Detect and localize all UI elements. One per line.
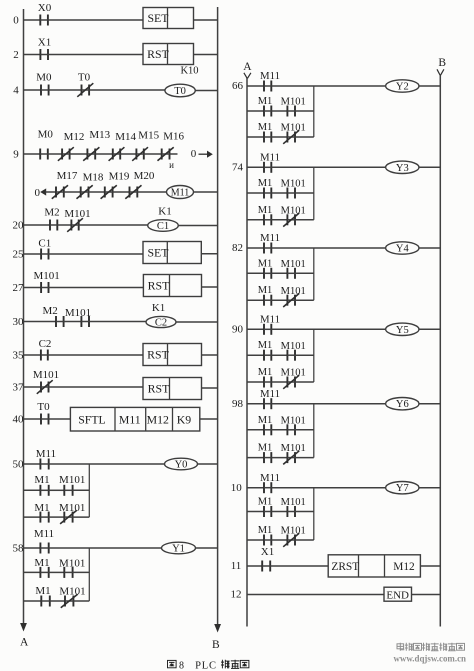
wire rung50 left <box>24 463 41 465</box>
contact M1 (rung58 b2) <box>35 585 50 607</box>
contact M101 (NC, rung90 b2) <box>281 368 306 389</box>
branch join vertical (rung74) <box>313 167 315 220</box>
svg-text:M0: M0 <box>36 71 52 83</box>
svg-text:M101: M101 <box>281 526 306 537</box>
svg-text:M1: M1 <box>258 340 273 351</box>
wire rung2 right <box>194 54 218 56</box>
svg-text:66: 66 <box>232 80 244 92</box>
svg-text:T0: T0 <box>37 401 50 413</box>
svg-text:M1: M1 <box>258 443 273 454</box>
instruction box SFTL M11 M12 K9 <box>70 407 199 431</box>
wire rung82 b2 join <box>295 299 314 301</box>
svg-text:37: 37 <box>13 382 25 394</box>
wire rung90 b2 left <box>247 381 264 383</box>
svg-text:M1: M1 <box>258 178 273 189</box>
wire rung74 b2 join <box>295 219 314 221</box>
wire rung58 to coil <box>49 547 162 549</box>
output coil Y1 <box>162 542 196 554</box>
wire rung82 b2 left <box>247 299 264 301</box>
svg-text:SFTL: SFTL <box>78 412 106 426</box>
wire rung90 right <box>418 328 440 330</box>
svg-text:82: 82 <box>232 242 243 254</box>
watermark character 术 <box>448 643 456 651</box>
svg-text:M1: M1 <box>258 122 273 133</box>
watermark character 技 <box>439 643 447 651</box>
wire rung66 b1 left <box>247 110 264 112</box>
svg-text:35: 35 <box>13 350 25 362</box>
wire <box>50 600 65 602</box>
wire <box>271 299 287 301</box>
contact M12 (NC) <box>58 131 84 161</box>
wire rung0 left <box>24 19 41 21</box>
wire rung37 left <box>24 386 42 388</box>
wire <box>144 153 162 155</box>
svg-text:M101: M101 <box>281 205 306 216</box>
contact C1 (NO) <box>38 238 51 260</box>
wire rung20 left <box>24 224 51 226</box>
svg-text:C1: C1 <box>157 221 169 232</box>
svg-text:M18: M18 <box>83 172 104 184</box>
contact T0 (NC) <box>77 71 93 96</box>
contact M11 (rung66) <box>260 70 280 91</box>
svg-text:и: и <box>169 160 174 170</box>
wire rung98 left <box>247 403 264 405</box>
svg-text:20: 20 <box>13 220 25 232</box>
wire rung25 left <box>24 253 42 255</box>
wire rung40 left <box>24 418 42 420</box>
contact M15 (NC) <box>132 130 159 161</box>
wire rung74 b1 left <box>247 192 264 194</box>
svg-text:0: 0 <box>13 15 19 27</box>
svg-text:M1: M1 <box>258 258 273 269</box>
instruction box RST (rung 27) <box>143 275 201 297</box>
svg-text:M12: M12 <box>393 561 415 573</box>
wire rung10 right <box>418 487 440 489</box>
wire rung50 b2 join <box>73 516 90 518</box>
svg-text:0: 0 <box>34 187 40 199</box>
svg-text:RST: RST <box>148 382 170 396</box>
contact M11 (rung90) <box>260 314 280 335</box>
wire rung66 b1 join <box>295 110 314 112</box>
contact M101 (NC, rung74 b2) <box>281 205 306 226</box>
svg-text:www.dqjsw.com.cn: www.dqjsw.com.cn <box>394 655 467 665</box>
svg-text:M101: M101 <box>281 341 306 352</box>
wire <box>271 192 287 194</box>
contact M11 (rung50) <box>36 448 56 470</box>
svg-text:M1: M1 <box>34 502 49 514</box>
watermark character 气 <box>405 643 413 651</box>
contact M101 (rung74 b1) <box>281 179 306 199</box>
wire rung10 b1 join <box>295 511 314 513</box>
wire rung58 right <box>196 547 218 549</box>
svg-text:M101: M101 <box>281 259 306 270</box>
svg-text:M12: M12 <box>147 412 169 426</box>
contact M11 (rung98) <box>260 388 280 409</box>
svg-text:M101: M101 <box>281 368 306 379</box>
wire <box>120 153 136 155</box>
output coil Y0 <box>165 458 198 470</box>
svg-text:RST: RST <box>147 348 169 362</box>
wire rung0 right <box>194 19 218 21</box>
branch join vertical (rung66) <box>313 86 315 137</box>
svg-text:A: A <box>20 637 29 649</box>
contact M14 (NC) <box>109 131 137 161</box>
contact X1 (rung114) <box>261 546 274 572</box>
svg-text:M101: M101 <box>281 123 306 134</box>
output coil Y7 <box>386 482 419 495</box>
wire rung40 right <box>200 418 218 420</box>
svg-text:B: B <box>212 639 220 651</box>
svg-text:C1: C1 <box>38 238 51 250</box>
svg-text:END: END <box>386 589 409 601</box>
contact M11 (rung58) <box>34 528 54 554</box>
wire <box>49 489 65 491</box>
svg-text:K10: K10 <box>180 66 198 77</box>
wire rung20 to counter <box>79 224 148 226</box>
wire rung50 right <box>198 463 218 465</box>
wire rung35 right <box>202 354 218 356</box>
svg-text:M101: M101 <box>281 415 306 426</box>
contact M17 (NC) <box>52 170 78 199</box>
contact M101 (NC, rung37) <box>33 369 59 394</box>
contact X0 (NO) <box>38 2 52 26</box>
wire rung90 b1 join <box>295 354 314 356</box>
wire <box>271 136 287 138</box>
branch join vertical (rung10) <box>313 488 315 540</box>
contact M1 (rung82 b2) <box>258 285 273 306</box>
contact M16 (NC) <box>158 131 185 161</box>
svg-text:M101: M101 <box>59 474 85 486</box>
wire rung2 to RST box <box>48 54 143 56</box>
wire rung2 left <box>24 54 41 56</box>
wire rung82 left <box>247 247 264 249</box>
svg-text:25: 25 <box>13 249 25 261</box>
wire rung58 b2 join <box>73 600 89 602</box>
wire <box>271 354 287 356</box>
output coil Y5 <box>386 323 419 336</box>
svg-text:K1: K1 <box>152 302 165 314</box>
svg-text:B: B <box>438 57 446 69</box>
contact M1 (rung10 b2) <box>258 525 273 546</box>
svg-text:M101: M101 <box>65 307 91 319</box>
continuation arrow left (rung 9 row 2) <box>40 188 56 195</box>
timer coil T0 <box>165 84 195 97</box>
wire rung40 to SFTL box <box>49 418 71 420</box>
svg-text:X0: X0 <box>38 2 52 14</box>
branch join vertical (rung58) <box>88 548 90 601</box>
contact C2 (NO) <box>39 338 52 361</box>
svg-text:M17: M17 <box>57 170 78 182</box>
contact M101 (NC, rung82 b2) <box>281 286 306 307</box>
wire rung74 left <box>247 166 264 168</box>
continuation arrowhead B <box>437 69 444 75</box>
instruction box ZRST M12 <box>328 555 420 577</box>
wire rung30 to counter <box>89 321 146 323</box>
svg-text:Y6: Y6 <box>396 399 409 410</box>
contact M1 (rung74 b1) <box>258 178 273 199</box>
contact M18 (NC) <box>77 172 104 199</box>
right power rail (left ladder) <box>214 7 221 633</box>
wire <box>64 191 81 193</box>
svg-text:M2: M2 <box>42 305 57 317</box>
wire rung98 b1 left <box>247 429 264 431</box>
svg-text:M101: M101 <box>281 497 306 508</box>
wire rung82 b1 join <box>295 272 314 274</box>
wire rung50 branch2 left <box>24 516 41 518</box>
wire <box>89 191 105 193</box>
watermark character 化 <box>431 643 439 651</box>
wire <box>271 219 287 221</box>
svg-text:M101: M101 <box>64 208 90 220</box>
wire <box>271 457 287 459</box>
contact M1 (rung82 b1) <box>258 258 273 279</box>
svg-text:M1: M1 <box>258 497 273 508</box>
wire row2 to coil <box>137 191 166 193</box>
contact M1 (rung58 b1) <box>34 557 49 578</box>
svg-text:Y7: Y7 <box>396 483 409 494</box>
watermark character 电 <box>397 643 404 651</box>
branch join vertical (rung50) <box>88 464 90 517</box>
branch join vertical (rung98) <box>313 404 315 458</box>
wire rung58 left <box>24 547 41 549</box>
svg-text:M1: M1 <box>34 557 49 569</box>
svg-text:M1: M1 <box>258 415 273 426</box>
wire rung10 b2 left <box>247 539 264 541</box>
wire rung0 to SET box <box>48 19 143 21</box>
svg-text:Y0: Y0 <box>175 460 188 471</box>
svg-text:M101: M101 <box>59 502 85 514</box>
caption character 形 <box>231 660 240 669</box>
svg-text:M16: M16 <box>163 131 184 143</box>
svg-text:90: 90 <box>232 324 244 336</box>
contact M101 (rung82 b1) <box>281 259 306 279</box>
svg-text:M15: M15 <box>138 130 159 142</box>
svg-text:M2: M2 <box>44 207 59 219</box>
wire <box>271 539 287 541</box>
wire rung37 to RST box <box>49 386 144 388</box>
wire rung74 to coil <box>271 166 385 168</box>
output coil Y3 <box>386 161 419 174</box>
svg-text:Y3: Y3 <box>396 163 409 174</box>
wire rung90 b2 join <box>295 381 314 383</box>
contact T0 (NO, rung40) <box>37 401 50 425</box>
contact M1 (rung98 b1) <box>258 415 273 436</box>
svg-text:M101: M101 <box>281 286 306 297</box>
svg-text:K1: K1 <box>158 206 171 218</box>
contact M101 (NO, rung30) <box>65 307 91 327</box>
wire <box>271 429 287 431</box>
svg-text:M101: M101 <box>281 97 306 108</box>
svg-text:A: A <box>243 61 252 73</box>
wire rung98 b1 join <box>295 429 314 431</box>
svg-text:C2: C2 <box>155 318 167 329</box>
svg-text:M11: M11 <box>34 528 54 540</box>
svg-text:M20: M20 <box>134 170 155 182</box>
wire <box>49 516 65 518</box>
wire rung74 right <box>418 166 440 168</box>
continuation arrow right (rung 9) <box>199 151 213 158</box>
wire rung66 right <box>418 85 440 87</box>
counter coil C2 <box>146 316 176 328</box>
caption character 图 <box>168 660 177 667</box>
wire <box>271 381 287 383</box>
watermark character 动 <box>422 643 430 651</box>
wire rung20 right <box>178 225 217 227</box>
left power rail (left ladder) <box>20 9 27 632</box>
svg-text:M1: M1 <box>258 96 273 107</box>
svg-text:4: 4 <box>13 85 19 97</box>
contact M1 (rung90 b1) <box>258 340 273 361</box>
wire rung58 b1 join <box>73 571 90 573</box>
svg-text:2: 2 <box>13 49 19 61</box>
svg-text:9: 9 <box>13 149 19 161</box>
contact M101 (NC, rung20) <box>64 208 90 232</box>
svg-text:SET: SET <box>148 246 170 260</box>
wire <box>64 321 82 323</box>
wire rung9 tail <box>170 153 178 155</box>
contact M1 (rung98 b2) <box>258 443 273 464</box>
wire rung90 b1 left <box>247 354 264 356</box>
wire rung50 to coil <box>49 463 165 465</box>
svg-text:M11: M11 <box>260 472 280 484</box>
svg-text:11: 11 <box>231 560 242 572</box>
svg-text:M11: M11 <box>260 232 280 244</box>
wire rung66 left <box>247 85 264 87</box>
contact M11 (rung82) <box>260 232 280 253</box>
wire rung58 branch2 left <box>24 600 42 602</box>
wire rung37 right <box>202 387 218 389</box>
svg-text:C2: C2 <box>39 338 52 350</box>
svg-text:M14: M14 <box>115 131 136 143</box>
contact M1 (rung50 b1) <box>34 474 49 496</box>
wire rung82 to coil <box>271 247 385 249</box>
contact M0 (NO, rung 9) <box>38 129 54 160</box>
wire rung98 b2 join <box>295 457 314 459</box>
instruction box RST (rung 2) <box>143 44 194 65</box>
contact M101 (rung50 b1) <box>59 474 85 496</box>
wire rung50 branch1 left <box>24 489 41 491</box>
svg-text:10: 10 <box>231 482 243 494</box>
svg-text:SET: SET <box>148 11 170 25</box>
wire rung4 right <box>195 90 217 92</box>
svg-text:0: 0 <box>191 148 197 160</box>
wire rung4 mid <box>49 89 82 91</box>
svg-text:58: 58 <box>13 543 25 555</box>
branch join vertical (rung90) <box>313 329 315 382</box>
contact M1 (rung74 b2) <box>258 205 273 226</box>
wire rung30 right <box>176 321 218 323</box>
wire rung90 left <box>247 328 264 330</box>
wire rung30 left <box>24 321 57 323</box>
svg-text:M1: M1 <box>258 525 273 536</box>
wire rung66 b2 join <box>295 136 314 138</box>
coil M11 <box>167 186 194 199</box>
svg-text:RST: RST <box>147 47 169 61</box>
wire rung58 branch1 left <box>24 571 41 573</box>
svg-text:X1: X1 <box>38 37 51 49</box>
svg-text:Y4: Y4 <box>396 244 410 255</box>
svg-text:M11: M11 <box>260 152 280 164</box>
instruction box END <box>384 587 412 601</box>
svg-text:30: 30 <box>13 316 25 328</box>
svg-text:Y5: Y5 <box>396 325 409 336</box>
svg-text:M101: M101 <box>59 586 85 598</box>
wire <box>271 110 287 112</box>
contact M101 (NO, rung27) <box>33 270 59 293</box>
wire rung98 b2 left <box>247 457 264 459</box>
svg-text:M11: M11 <box>260 388 280 400</box>
svg-text:M1: M1 <box>258 205 273 216</box>
svg-text:M101: M101 <box>281 443 306 454</box>
svg-text:M1: M1 <box>258 285 273 296</box>
wire rung4 to coil <box>89 89 165 91</box>
svg-text:M19: M19 <box>109 171 130 183</box>
svg-text:M13: M13 <box>89 129 110 141</box>
svg-text:M11: M11 <box>260 314 280 326</box>
svg-text:40: 40 <box>13 414 25 426</box>
svg-text:M11: M11 <box>36 448 56 460</box>
svg-text:M101: M101 <box>33 369 59 381</box>
contact X1 (NO) <box>38 37 51 61</box>
contact M2 (NO) <box>44 207 59 231</box>
wire rung25 to SET box <box>49 253 144 255</box>
contact M1 (rung66 b1) <box>258 96 273 117</box>
svg-text:K9: K9 <box>177 412 192 426</box>
svg-text:PLC: PLC <box>195 660 217 671</box>
wire <box>95 153 113 155</box>
svg-text:M11: M11 <box>119 412 141 426</box>
wire rung114 right <box>420 565 440 567</box>
wire rung82 right <box>418 247 440 249</box>
svg-text:12: 12 <box>231 589 242 601</box>
svg-text:M1: M1 <box>35 585 50 597</box>
svg-text:T0: T0 <box>78 71 91 83</box>
contact M101 (rung66 b1) <box>281 97 306 117</box>
wire rung122 right <box>412 594 441 596</box>
contact M101 (rung98 b1) <box>281 415 306 435</box>
svg-text:M1: M1 <box>34 474 49 486</box>
contact M101 (rung58 b1) <box>59 558 85 578</box>
watermark character 网 <box>457 643 465 650</box>
svg-text:74: 74 <box>232 162 244 174</box>
wire <box>271 511 287 513</box>
wire rung90 to coil <box>271 328 385 330</box>
contact M20 (NC) <box>125 170 155 199</box>
contact M101 (NC, rung58 b2) <box>59 586 85 608</box>
output coil Y6 <box>386 398 419 411</box>
svg-text:ZRST: ZRST <box>331 561 359 573</box>
contact M1 (rung90 b2) <box>258 367 273 388</box>
svg-text:M101: M101 <box>281 179 306 190</box>
svg-text:RST: RST <box>148 279 170 293</box>
contact M101 (rung90 b1) <box>281 341 306 361</box>
wire rung66 to coil <box>271 85 385 87</box>
wire rung10 left <box>247 487 264 489</box>
wire rung122 left <box>247 594 384 596</box>
wire rung74 b2 left <box>247 219 264 221</box>
wire rung10 b1 left <box>247 511 264 513</box>
contact M101 (NC, rung98 b2) <box>281 443 306 464</box>
wire rung50 b1 join <box>73 489 90 491</box>
left power rail (right ladder) <box>246 78 248 627</box>
contact M11 (rung10) <box>260 472 280 493</box>
svg-text:X1: X1 <box>261 546 274 558</box>
wire <box>49 571 65 573</box>
contact M19 (NC) <box>101 171 130 199</box>
wire rung25 right <box>201 253 217 255</box>
svg-text:8: 8 <box>179 660 184 671</box>
wire row2 right <box>194 191 218 193</box>
